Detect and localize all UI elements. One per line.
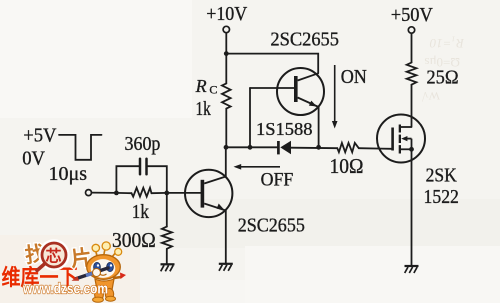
svg-text:+50V: +50V [391, 4, 434, 26]
svg-text:25Ω: 25Ω [426, 66, 458, 88]
wire capacitor branch left [116, 166, 139, 193]
diode D1 1S1588 [278, 141, 291, 155]
arrow ON (down) [332, 65, 338, 129]
wire 1k to base node [152, 192, 167, 194]
wire node row C down to Q2 collector [225, 147, 227, 176]
svg-text:www.dzsc.com: www.dzsc.com [22, 281, 108, 298]
pulse waveform symbol [59, 135, 102, 160]
ground (MOSFET source) [405, 266, 419, 273]
transistor Q1 2SC2655 top [277, 68, 324, 115]
svg-text:R: R [195, 76, 207, 96]
svg-text:2SC2655: 2SC2655 [270, 29, 339, 51]
resistor 25ohm (vertical zigzag) [407, 63, 417, 85]
ground (Q2 emitter) [219, 264, 233, 271]
gate bar [391, 128, 394, 151]
body arrow [405, 138, 412, 140]
svg-text:1522: 1522 [424, 187, 459, 208]
wire Q1 base [250, 87, 294, 89]
capacitor 360p plates [139, 159, 142, 174]
svg-text:0V: 0V [22, 148, 45, 170]
channel segments [399, 125, 401, 133]
resistor Rc 1k (vertical zigzag) [222, 83, 231, 108]
source stub [401, 148, 412, 150]
watermark 维库一下 [2, 265, 78, 290]
svg-text:芯: 芯 [46, 247, 62, 266]
svg-text:2SK: 2SK [426, 165, 457, 186]
watermark zhao xin pian with magnifier [24, 242, 93, 272]
node +50V terminal [408, 27, 414, 33]
svg-text:OFF: OFF [261, 170, 294, 191]
resistor 1k input (horizontal zigzag) [132, 188, 152, 197]
svg-text:W√: W√ [422, 89, 440, 103]
wire +50V down to 25ohm [411, 33, 413, 62]
svg-text:10μs: 10μs [49, 163, 88, 185]
svg-text:1k: 1k [132, 201, 149, 223]
node +10V terminal [223, 26, 229, 32]
svg-text:+5V: +5V [23, 125, 57, 147]
svg-text:R₁=10: R₁=10 [429, 36, 465, 51]
svg-text:10Ω: 10Ω [330, 154, 364, 178]
svg-text:C: C [209, 83, 217, 97]
wire +10V terminal down to junction [225, 33, 227, 54]
wire input terminal to junction [86, 190, 92, 196]
ground (300 ohm) [161, 264, 175, 271]
arrow OFF (left) [234, 164, 281, 170]
faint print-through ghosts [422, 36, 465, 103]
wire top rail from junction to collector corner [226, 54, 318, 74]
wire capacitor branch right [147, 166, 167, 193]
wire Q2 emitter down to ground [225, 210, 227, 263]
transistor Q2 2SC2655 bottom [185, 170, 232, 217]
wire base node vertical [249, 88, 251, 147]
wire Q1 emitter vertical down to row C [318, 107, 320, 147]
wire base node down to 300ohm [166, 193, 168, 227]
wire Q2 base [167, 192, 201, 194]
watermark www.dzsc.com [22, 281, 108, 298]
wire Rc bottom down to node row C [225, 109, 227, 148]
wire 25ohm down to MOSFET drain [411, 85, 413, 127]
svg-text:360p: 360p [125, 134, 161, 155]
wire junction down to resistor Rc [225, 54, 227, 84]
resistor 300ohm (vertical zigzag) [162, 227, 172, 249]
resistor 10ohm (horizontal zigzag) [337, 143, 359, 152]
wire row C diode row [226, 146, 277, 148]
svg-text:2SC2655: 2SC2655 [238, 214, 305, 236]
wire 10ohm to MOSFET gate [359, 147, 392, 150]
wire junction to 1k resistor [116, 192, 131, 194]
svg-text:1k: 1k [196, 98, 211, 120]
drain stub [401, 126, 412, 128]
svg-text:+10V: +10V [206, 4, 247, 25]
junction dots [114, 51, 321, 195]
right arm with red flag [114, 277, 121, 278]
wire 300ohm to ground [166, 249, 168, 264]
svg-text:ON: ON [341, 67, 367, 88]
pen [77, 268, 109, 279]
mascot [72, 242, 127, 302]
MOSFET U1 2SK1522 [377, 115, 425, 163]
svg-text:1S1588: 1S1588 [256, 119, 313, 139]
wire MOSFET source down to ground [411, 149, 413, 265]
